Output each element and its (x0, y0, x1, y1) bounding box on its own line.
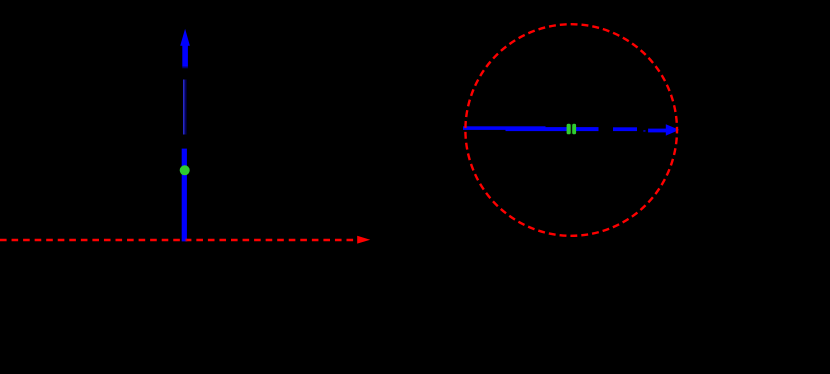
diameter vector arrow shaft (648, 129, 666, 133)
diameter vector arrowhead (666, 124, 680, 135)
x-axis arrowhead (357, 236, 370, 244)
x-axis dash overlapping vector base (186, 239, 188, 242)
x-axis (red dashed) left diagram (0, 239, 358, 242)
diameter vector long dash (613, 127, 637, 131)
reference circle (red dashed) (465, 24, 677, 236)
amplitude vector upper shaft (blue) (182, 46, 188, 67)
center dot left half (green) (567, 124, 571, 135)
diameter vector solid bar segment 1 (463, 126, 546, 130)
diameter vector tiny dash (643, 130, 645, 132)
diameter vector solid bar segment 2 (506, 127, 599, 131)
amplitude vector lower shaft (blue) (182, 149, 187, 242)
upper shaft fade tail (182, 67, 188, 69)
vector trail thin line B (185, 80, 186, 135)
vector trail thin line A (183, 80, 185, 135)
oscillating dot (green) (180, 165, 190, 175)
center dot dark slit (570, 124, 572, 134)
amplitude vector arrowhead (180, 29, 190, 46)
center dot right half (green) (572, 124, 576, 135)
